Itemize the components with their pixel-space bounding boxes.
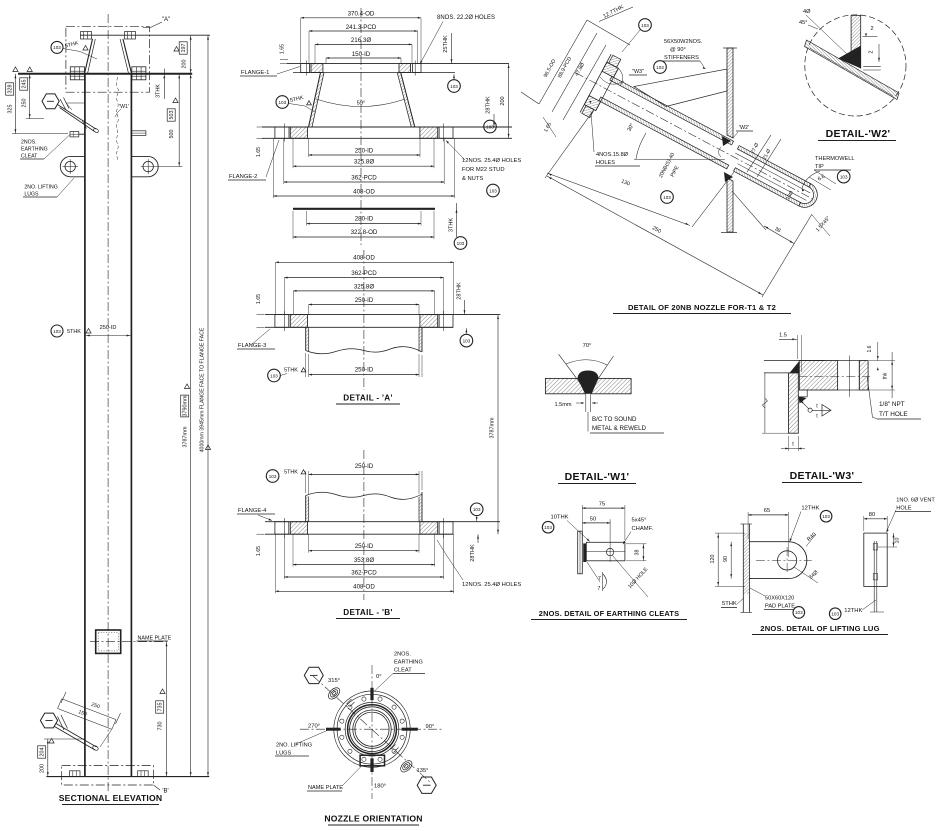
svg-text:12NOS. 25.4Ø HOLES: 12NOS. 25.4Ø HOLES (462, 158, 521, 164)
svg-text:216.3Ø: 216.3Ø (351, 37, 371, 44)
right vertical dimension 4000mm flange face to flange face (207, 35, 209, 776)
name plate rectangle orientation (360, 755, 384, 766)
detail W1 groove lines and 70 degree arc (559, 354, 588, 394)
svg-text:730: 730 (158, 722, 164, 731)
svg-text:3787mm: 3787mm (490, 417, 496, 438)
svg-text:& NUTS: & NUTS (462, 176, 483, 182)
svg-text:45°: 45° (799, 20, 807, 26)
svg-text:FLANGE-2: FLANGE-2 (229, 174, 257, 180)
svg-text:250-ID: 250-ID (355, 543, 374, 550)
svg-text:'W2': 'W2' (739, 125, 749, 131)
svg-text:28THK: 28THK (486, 96, 492, 114)
left dim 250/245 (29, 74, 31, 119)
svg-text:103: 103 (53, 329, 61, 334)
svg-text:500: 500 (169, 130, 175, 139)
svg-text:2: 2 (869, 50, 875, 53)
flange-2 top face line (262, 126, 512, 128)
svg-text:DETAIL-'W2': DETAIL-'W2' (826, 128, 891, 140)
svg-text:322.8-OD: 322.8-OD (351, 229, 378, 236)
svg-text:1.5: 1.5 (779, 333, 787, 339)
svg-text:90: 90 (723, 556, 729, 562)
detail B flange right blocks (420, 522, 438, 535)
svg-text:315°: 315° (328, 678, 340, 684)
30 degree angle (634, 158, 725, 160)
nozzle 135 hexagon (417, 777, 436, 793)
detail B pipe break wavy line (306, 492, 422, 499)
svg-text:1.65: 1.65 (256, 147, 262, 157)
flange-2 left blocks (275, 127, 289, 138)
svg-text:250-ID: 250-ID (100, 325, 117, 331)
svg-text:4Ø: 4Ø (803, 9, 811, 15)
svg-text:DETAIL - 'A': DETAIL - 'A' (343, 394, 393, 403)
flange-2 right blocks (420, 127, 438, 138)
svg-text:"W3": "W3" (632, 69, 644, 75)
svg-text:250-ID: 250-ID (355, 463, 374, 470)
mid-height 250-ID dimension (51, 325, 63, 337)
detail A flange top face (265, 314, 500, 316)
svg-text:3790mm: 3790mm (183, 395, 189, 416)
weld seam W1 wavy dashed line (116, 77, 118, 160)
svg-text:5THK: 5THK (284, 368, 298, 374)
marker 103 with 5THK left of cone (276, 96, 289, 109)
svg-text:0°: 0° (376, 674, 382, 680)
extension and dim lines 130 250 (545, 111, 593, 178)
detail B flange bottom face (265, 533, 453, 535)
detail W3 vertical plate (789, 373, 799, 433)
svg-text:56X50W2NOS.: 56X50W2NOS. (664, 39, 703, 45)
5THK label detail B (266, 470, 279, 483)
detail B pipe walls (305, 496, 307, 522)
svg-text:10THK: 10THK (551, 515, 569, 521)
svg-text:12THK: 12THK (844, 608, 862, 614)
detail W2 pipe band (805, 40, 900, 100)
svg-text:200: 200 (182, 60, 188, 69)
svg-text:8NOS. 22.2Ø HOLES: 8NOS. 22.2Ø HOLES (437, 15, 495, 21)
shell wall left (84, 74, 86, 777)
svg-text:103: 103 (473, 507, 481, 512)
svg-text:250-ID: 250-ID (355, 148, 374, 155)
right vertical dimension 3787mm (190, 35, 192, 776)
bottom flange bolts right (138, 771, 149, 777)
svg-text:103: 103 (831, 612, 839, 617)
lifting lug body (749, 542, 806, 579)
name plate in elevation (96, 630, 121, 653)
svg-text:408-OD: 408-OD (353, 189, 375, 196)
sectional elevation: dash-dot boundary box of detail A region (66, 27, 150, 93)
svg-text:EARTHING: EARTHING (21, 147, 48, 153)
nozzle pipe rotated group (560, 43, 832, 229)
svg-text:325.8Ø: 325.8Ø (354, 159, 374, 166)
detail A centre line (363, 250, 365, 390)
svg-text:38: 38 (635, 550, 641, 556)
svg-text:325: 325 (8, 105, 14, 114)
svg-text:280-ID: 280-ID (355, 216, 374, 223)
svg-text:FOR M22 STUD: FOR M22 STUD (462, 167, 505, 173)
nozzle 315 flange ellipses (326, 686, 342, 702)
detail W1 right plate (592, 378, 632, 393)
svg-text:SECTIONAL ELEVATION: SECTIONAL ELEVATION (59, 793, 163, 803)
svg-text:NOZZLE ORIENTATION: NOZZLE ORIENTATION (324, 814, 422, 824)
svg-text:1/8" NPT: 1/8" NPT (879, 401, 905, 408)
main flange bolt stack right (132, 67, 146, 80)
svg-text:103: 103 (544, 525, 552, 530)
detail A pipe break wavy line (306, 347, 422, 354)
svg-text:103: 103 (641, 23, 649, 28)
earthing cleat weld symbol 7 7 (587, 562, 600, 582)
extension lines detail A top dims (275, 262, 277, 314)
right vertical 3787mm dim A-B (497, 315, 499, 535)
detail B flange top face (265, 521, 500, 523)
svg-text:103: 103 (795, 610, 803, 615)
detail A flange right blocks (420, 315, 438, 328)
thermowell T2 stem (56, 724, 97, 748)
svg-text:PAD PLATE: PAD PLATE (765, 604, 795, 610)
svg-text:50: 50 (590, 516, 596, 522)
T2 rotated dimension lines 250 and 150 (62, 699, 116, 720)
svg-text:59°: 59° (357, 101, 366, 107)
59 degree angle arc (316, 99, 405, 107)
svg-text:75: 75 (599, 502, 605, 508)
svg-text:103: 103 (463, 338, 471, 343)
sectional elevation: centre line (107, 14, 109, 793)
svg-text:TIP: TIP (815, 164, 824, 170)
flange dims 96.5-OD 88.9-PCD 47.8 (539, 20, 587, 104)
detail W2 weld triangle (838, 46, 861, 69)
svg-text:'B': 'B' (162, 789, 168, 795)
cone shell slant walls (309, 73, 321, 128)
svg-text:2NO. LIFTING: 2NO. LIFTING (24, 185, 57, 191)
svg-text:370.4-OD: 370.4-OD (348, 11, 375, 18)
svg-text:3787mm: 3787mm (183, 426, 189, 447)
bottom flange bolts left (70, 771, 81, 777)
marker 103 right of flange-1 (448, 80, 461, 93)
detail W3 corner weld triangle (790, 361, 800, 373)
svg-text:120: 120 (710, 555, 716, 564)
svg-text:12THK: 12THK (801, 506, 819, 512)
shell wall vertical strip nozzle detail (727, 48, 733, 138)
svg-text:28THK: 28THK (470, 544, 476, 562)
dim 38 at tip (732, 191, 766, 230)
dim 500/503 right of column (178, 74, 180, 167)
svg-text:50X60X120: 50X60X120 (765, 596, 794, 602)
svg-text:103: 103 (656, 65, 664, 70)
svg-text:STIFFENERS: STIFFENERS (664, 55, 699, 61)
svg-text:103: 103 (270, 373, 278, 378)
svg-text:65: 65 (764, 508, 770, 514)
nozzle orientation bolt holes (400, 735, 404, 739)
svg-text:408-OD: 408-OD (353, 584, 375, 591)
svg-text:DETAIL-'W3': DETAIL-'W3' (790, 470, 855, 482)
thermowell nozzle T2 hexagon (40, 713, 57, 728)
svg-text:CHAMF.: CHAMF. (632, 526, 654, 532)
svg-text:80: 80 (869, 512, 875, 518)
svg-text:408-OD: 408-OD (353, 255, 375, 262)
lifting lug left elevation (60, 156, 85, 176)
nozzle orientation crosshair vertical (371, 665, 373, 799)
svg-text:362-PCD: 362-PCD (351, 175, 377, 182)
dim 200/204 bottom left (47, 739, 49, 777)
earthing cleat vertical plate (578, 531, 583, 574)
svg-text:197: 197 (181, 44, 187, 53)
svg-text:T/T HOLE: T/T HOLE (879, 411, 908, 418)
svg-text:LUGS: LUGS (276, 750, 292, 756)
svg-text:1.5mm: 1.5mm (554, 402, 571, 408)
detail W3 hole centre lines (798, 376, 870, 378)
svg-text:103: 103 (489, 188, 497, 193)
detail A flange bottom face (265, 326, 453, 328)
dim 200/197 top right (174, 47, 179, 52)
svg-text:thk: thk (883, 372, 889, 379)
detail A pipe walls (305, 327, 307, 350)
svg-text:90°: 90° (426, 724, 435, 730)
marker 103 detail B right (470, 503, 483, 516)
svg-text:70°: 70° (583, 343, 592, 349)
svg-text:103: 103 (663, 195, 671, 200)
earthing cleat hole (606, 548, 613, 555)
top flange bolts left (81, 32, 92, 40)
detail B flange left blocks (275, 522, 289, 535)
svg-text:5THK: 5THK (284, 470, 298, 476)
svg-text:2NOS.: 2NOS. (21, 140, 37, 146)
detail W3 plate notch (799, 390, 807, 397)
svg-text:2: 2 (870, 26, 873, 32)
svg-text:103: 103 (822, 514, 830, 519)
svg-text:FLANGE-4: FLANGE-4 (238, 508, 267, 514)
svg-text:METAL & REWELD: METAL & REWELD (592, 425, 647, 432)
svg-text:353.8Ø: 353.8Ø (354, 557, 374, 564)
svg-text:2NO. LIFTING: 2NO. LIFTING (276, 742, 312, 748)
svg-text:HOLES: HOLES (596, 160, 615, 166)
earthing cleat weld bar (583, 543, 586, 562)
marker 103 nozzle flange (639, 19, 652, 32)
svg-text:"A": "A" (162, 17, 170, 23)
detail A flange left blocks (275, 315, 289, 328)
svg-text:7: 7 (598, 586, 601, 592)
svg-text:2NOS.: 2NOS. (394, 652, 411, 658)
svg-text:2NOS. DETAIL OF EARTHING C: 2NOS. DETAIL OF EARTHING CLEATS (539, 609, 679, 618)
dims 27 and 21 at wall right (747, 135, 771, 172)
detail W2 dashed circle (805, 15, 906, 116)
svg-text:200: 200 (40, 764, 46, 773)
extension lines flange-2 dims (308, 138, 310, 157)
extension lines top dims (300, 18, 302, 64)
svg-text:204: 204 (40, 748, 46, 757)
svg-text:FLANGE-1: FLANGE-1 (241, 70, 269, 76)
earthing cleat stub left elevation (70, 132, 79, 137)
svg-text:5x45°: 5x45° (632, 518, 647, 524)
top flange bolts right (125, 32, 136, 40)
lug marks at 0 90 180 270 (370, 688, 373, 700)
lifting lug right elevation (131, 156, 158, 176)
detail W2 wall bar (851, 15, 861, 68)
svg-text:362-PCD: 362-PCD (351, 569, 377, 576)
svg-text:328: 328 (8, 85, 14, 94)
lifting lug pad plate (742, 524, 744, 612)
flange-1 bottom line (293, 72, 455, 74)
svg-text:103: 103 (53, 45, 61, 50)
detail W3 horizontal plate hatched right (859, 361, 868, 391)
lifting lug hole (778, 551, 797, 570)
marker 103 detail A right (460, 334, 473, 347)
top flange face line (80, 34, 210, 36)
detail W1 left plate (545, 378, 585, 393)
earthing cleat dim 38 (626, 543, 647, 545)
flange-1 right blocks (399, 64, 411, 73)
svg-text:180°: 180° (374, 783, 386, 789)
marker 103 right of flange-2 (484, 120, 497, 133)
svg-text:3THK: 3THK (449, 218, 455, 233)
nozzle 315 hexagon (304, 667, 323, 683)
svg-text:103: 103 (840, 174, 848, 179)
detail W3 horizontal plate middle blank (838, 361, 860, 391)
side dim 10 (893, 533, 895, 547)
svg-text:103: 103 (278, 100, 286, 105)
marker 103 with 5THK at cone (51, 41, 63, 53)
svg-text:103: 103 (269, 474, 277, 479)
svg-text:1.65: 1.65 (280, 44, 286, 54)
svg-text:DETAIL - 'B': DETAIL - 'B' (343, 608, 393, 617)
svg-text:2NOS. DETAIL OF LIFTING LU: 2NOS. DETAIL OF LIFTING LUG (760, 624, 879, 633)
svg-text:325.8Ø: 325.8Ø (354, 283, 374, 290)
svg-text:10: 10 (894, 538, 900, 544)
svg-text:245: 245 (22, 80, 28, 89)
flange-1 top face line (287, 63, 509, 65)
main flange bolt stack left (70, 67, 84, 80)
svg-text:DETAIL-'W1': DETAIL-'W1' (565, 471, 630, 483)
earthing cleat horizontal bar (586, 542, 625, 561)
detail W1 weld dome (578, 371, 599, 394)
svg-text:DETAIL OF 20NB NOZZLE FOR-: DETAIL OF 20NB NOZZLE FOR-T1 & T2 (628, 303, 776, 312)
marker 103 pipe (661, 191, 674, 204)
marker 103 stiffener (654, 61, 667, 74)
nozzle 135 flange ellipses (399, 759, 415, 775)
marker 103 gasket (454, 237, 467, 250)
lifting lug dim 90 (730, 542, 732, 579)
detail W3 left dim line (764, 373, 766, 433)
svg-text:250-ID: 250-ID (355, 297, 374, 304)
detail W1 root gap lines (585, 394, 587, 412)
lifting lug dim 120 (717, 533, 719, 586)
svg-text:735: 735 (158, 703, 164, 712)
detail W3 inner weld triangle (799, 396, 807, 403)
svg-text:362-PCD: 362-PCD (351, 270, 377, 277)
bottom flange face line (46, 776, 209, 778)
detail B centre line (363, 450, 365, 600)
svg-text:NAME PLATE: NAME PLATE (308, 785, 343, 791)
left dim 325/328 (14, 74, 16, 134)
svg-text:12NOS. 25.4Ø HOLES: 12NOS. 25.4Ø HOLES (462, 582, 521, 588)
svg-text:5THK: 5THK (722, 601, 737, 607)
svg-text:250: 250 (22, 99, 28, 108)
svg-text:1.6: 1.6 (867, 345, 873, 352)
svg-text:150-ID: 150-ID (352, 51, 371, 58)
svg-text:4000mm 3945mm FLANGE FACE TO F: 4000mm 3945mm FLANGE FACE TO FLANGE FACE (200, 327, 206, 452)
svg-text:241.3-PCD: 241.3-PCD (346, 24, 377, 31)
svg-text:7: 7 (598, 576, 601, 582)
lifting lug side view (864, 533, 887, 586)
earthing cleat stub right elevation (131, 131, 146, 136)
svg-text:B/C TO SOUND: B/C TO SOUND (592, 416, 637, 423)
shell wall right (130, 74, 132, 777)
svg-text:103: 103 (450, 84, 458, 89)
svg-text:1NO. 6Ø VENT: 1NO. 6Ø VENT (896, 498, 935, 504)
dim 200 right side (508, 64, 510, 139)
svg-text:25THK: 25THK (443, 35, 449, 53)
svg-text:28THK: 28THK (457, 282, 463, 300)
detail W3 horizontal plate hatched left (799, 361, 837, 391)
flange-2 bottom face line (262, 137, 512, 139)
nozzle orientation crosshair horizontal (300, 728, 444, 730)
svg-text:503: 503 (169, 111, 175, 120)
marker 103 tip (837, 170, 850, 183)
nozzle orientation flange circles (334, 691, 410, 767)
detail W3 top face extension (764, 360, 825, 362)
reducer cone outline in elevation (85, 39, 93, 73)
svg-text:1.65: 1.65 (256, 294, 262, 304)
svg-text:250-ID: 250-ID (355, 367, 374, 374)
svg-text:135°: 135° (417, 768, 429, 774)
svg-text:103: 103 (457, 241, 465, 246)
nozzle orientation diagonal axis 315-135 (313, 676, 431, 783)
thermowell nozzle T1 hexagon (42, 94, 59, 109)
main flange face thick line (18, 73, 192, 75)
svg-text:1.65: 1.65 (256, 546, 262, 556)
svg-text:HOLE: HOLE (896, 506, 912, 512)
svg-text:@ 90°: @ 90° (670, 47, 686, 53)
extension lines gasket dims (306, 211, 308, 226)
svg-text:200: 200 (500, 96, 506, 105)
svg-text:5THK: 5THK (67, 329, 81, 335)
svg-text:4NOS.15.8Ø: 4NOS.15.8Ø (596, 152, 629, 158)
svg-text:EARTHING: EARTHING (394, 660, 423, 666)
marker 103 holes note (487, 184, 500, 197)
stiffener plate (634, 69, 727, 107)
svg-text:CLEAT: CLEAT (394, 668, 412, 674)
thermowell T1 stem (58, 105, 97, 130)
extension lines detail B bottom dims (308, 534, 310, 553)
svg-text:3THK: 3THK (156, 84, 162, 98)
detail W3 weld symbol (808, 408, 812, 412)
detail W1 note BC to sound metal (587, 412, 589, 432)
svg-text:THERMOWELL: THERMOWELL (815, 156, 854, 162)
svg-text:270°: 270° (308, 724, 320, 730)
gasket plate thick line (293, 208, 435, 210)
dim 730/735 (166, 642, 168, 777)
flange-1 left blocks (301, 64, 310, 73)
cone detail centre line (360, 8, 362, 245)
bottom flange dash-dot box (62, 766, 154, 786)
